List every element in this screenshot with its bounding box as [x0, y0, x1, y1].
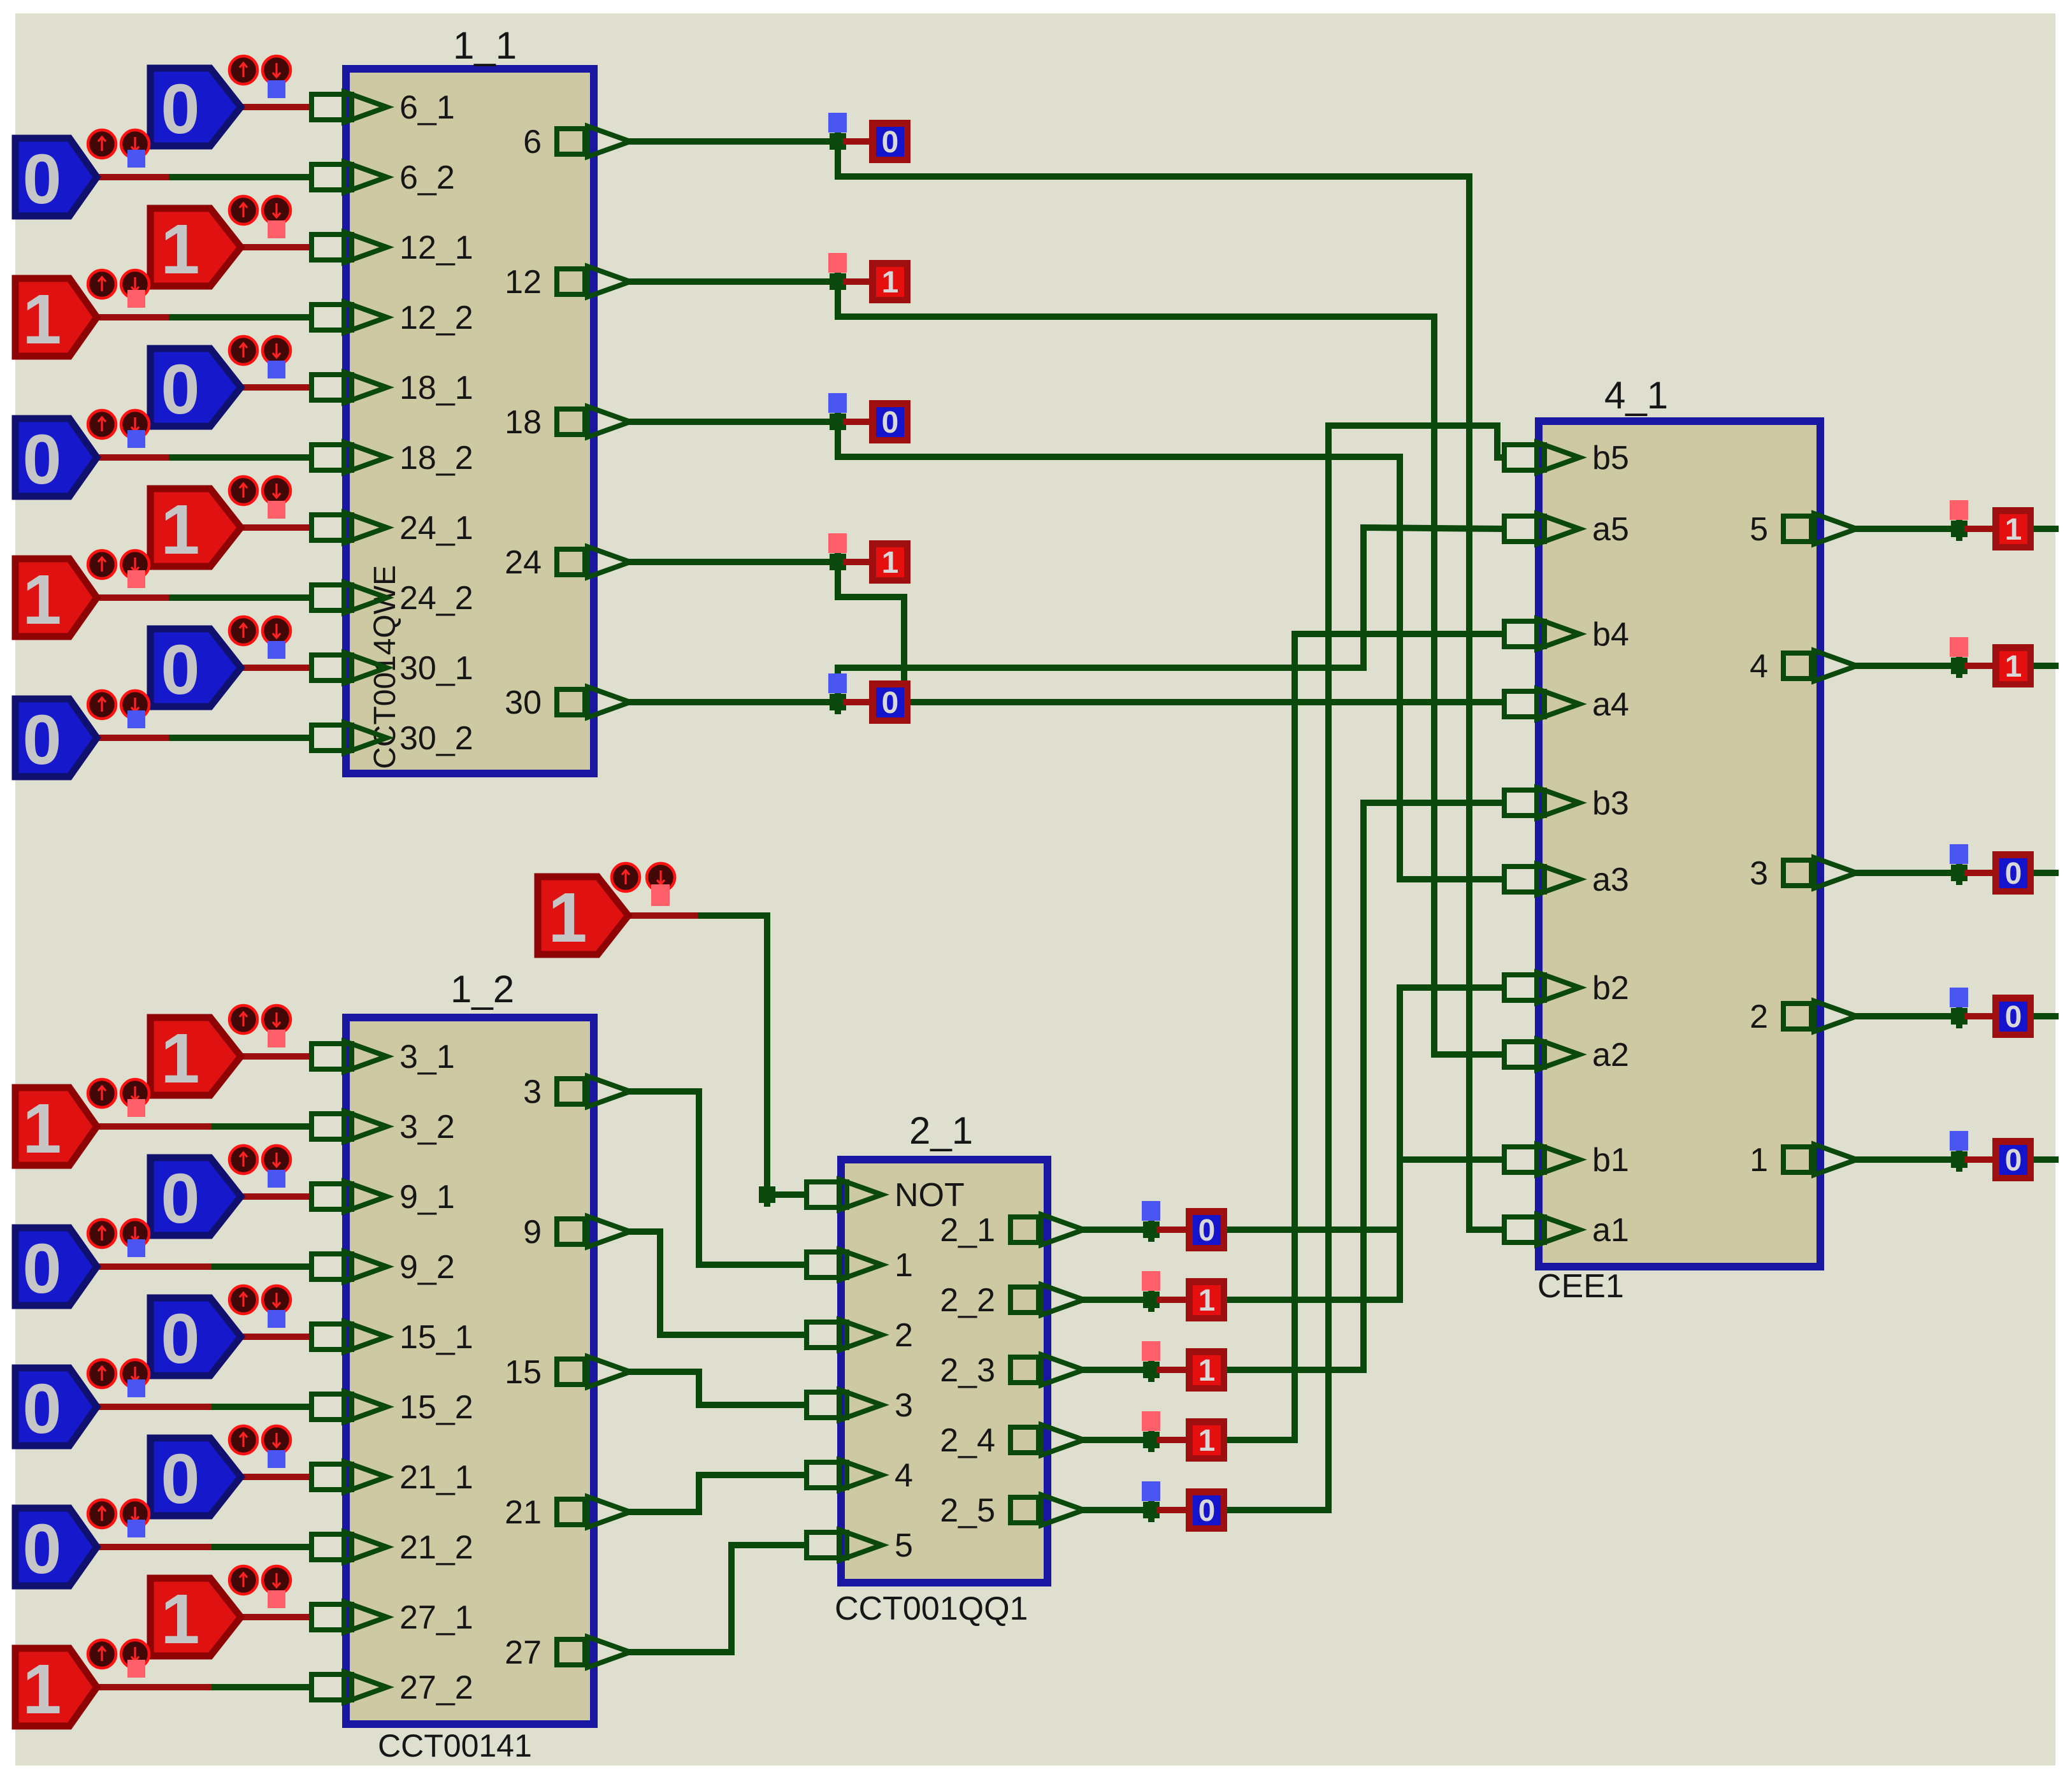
- indicator probe out 1: [1950, 1131, 1968, 1151]
- wire 3 to pin 1: [630, 1091, 804, 1265]
- pin 27_1 (1_2): [312, 1602, 387, 1632]
- wire net 18 into pin a3: [1400, 876, 1502, 882]
- wire (green) to pin 21_2: [215, 1544, 309, 1550]
- wire net 12 into pin a2: [1434, 1051, 1502, 1058]
- logicstate 12_2 value 1: [15, 270, 149, 359]
- pin 24_1 (1_1): [312, 512, 387, 543]
- junction node 2_3: [1143, 1358, 1160, 1382]
- svg-text:2_5: 2_5: [940, 1492, 995, 1529]
- junction node 12: [830, 270, 846, 294]
- pin 3 (2_1): [807, 1390, 882, 1420]
- pin a1 (4_1): [1504, 1214, 1579, 1245]
- wire (green) to pin 18_2: [172, 454, 309, 461]
- wire output 1 to probe junction: [1857, 1156, 1959, 1163]
- svg-text:30: 30: [505, 684, 542, 721]
- indicator probe 2_2: [1142, 1271, 1160, 1291]
- svg-text:4_1: 4_1: [1604, 374, 1668, 417]
- wire (red) junction to probe 2_1: [1160, 1227, 1186, 1233]
- junction node NOT: [759, 1183, 775, 1207]
- logicstate 15_2 value 0: [15, 1360, 149, 1448]
- svg-text:a4: a4: [1592, 686, 1629, 723]
- wire (red) junction to probe 2_5: [1160, 1507, 1186, 1513]
- wire net 2_2 into pin b2: [1400, 984, 1502, 991]
- svg-text:1: 1: [2005, 513, 2022, 547]
- logic probe out 5 value 1: [1992, 507, 2034, 550]
- logic probe 12 value 1: [869, 260, 910, 303]
- pin 9_1 (1_2): [312, 1181, 387, 1212]
- logicstate 30_1 value 0: [150, 617, 291, 709]
- svg-text:3_1: 3_1: [399, 1039, 455, 1076]
- junction node out 1: [1951, 1147, 1968, 1172]
- pin 12 (1_1 out): [557, 266, 630, 297]
- pin 3 (4_1 out): [1783, 858, 1857, 888]
- wire net 2_4 to column b4: [1228, 634, 1295, 1440]
- svg-text:24_1: 24_1: [399, 510, 473, 547]
- pin 2 (2_1): [807, 1320, 882, 1350]
- svg-text:1: 1: [161, 1019, 199, 1098]
- wire net 2_2 to column b2: [1228, 988, 1400, 1300]
- wire 27 to pin 5: [630, 1545, 804, 1652]
- wire output 4 after probe to edge: [2034, 663, 2055, 669]
- wire 21 to pin 4: [630, 1475, 804, 1512]
- logicstate 6_2 value 0: [15, 130, 149, 219]
- wire net 30 vertical and into pin a5: [1363, 528, 1502, 668]
- logic probe 30 value 0: [869, 680, 910, 724]
- pin 1 (2_1): [807, 1249, 882, 1280]
- wire net 24 to pin a4: [904, 699, 1502, 705]
- wire output 2_5 to probe junction: [1084, 1507, 1151, 1513]
- wire output 1 after probe to edge: [2034, 1156, 2055, 1163]
- IC 2_1 (CCT001QQ1) body: [841, 1160, 1047, 1583]
- svg-text:30_2: 30_2: [399, 720, 473, 757]
- svg-text:0: 0: [882, 686, 899, 720]
- wire output 6 to probe junction: [630, 138, 838, 145]
- logicstate 15_1 value 0: [150, 1286, 291, 1378]
- svg-text:18_1: 18_1: [399, 370, 473, 406]
- junction node out 5: [1951, 517, 1968, 541]
- svg-text:CEE1: CEE1: [1537, 1268, 1624, 1305]
- logicstate 27_2 value 1: [15, 1640, 149, 1729]
- svg-text:1: 1: [161, 1580, 199, 1658]
- svg-text:1: 1: [22, 280, 61, 359]
- svg-text:0: 0: [1198, 1494, 1216, 1528]
- logicstate 24_1 value 1: [150, 477, 291, 569]
- svg-text:CCT001QQ1: CCT001QQ1: [835, 1590, 1028, 1627]
- svg-text:2_2: 2_2: [940, 1282, 995, 1319]
- pin 30 (1_1 out): [557, 687, 630, 717]
- pin b4 (4_1): [1504, 619, 1579, 649]
- svg-text:15: 15: [505, 1354, 542, 1391]
- pin b1 (4_1): [1504, 1144, 1579, 1175]
- junction node 30: [830, 690, 846, 714]
- wire output 12 to probe junction: [630, 278, 838, 285]
- pin 27 (1_2 out): [557, 1637, 630, 1667]
- pin 18_1 (1_1): [312, 372, 387, 403]
- wire output 2 to probe junction: [1857, 1013, 1959, 1019]
- IC 1_2 (CCT00141) body: [346, 1018, 594, 1724]
- svg-text:1: 1: [1750, 1142, 1768, 1179]
- pin 6_2 (1_1): [312, 162, 387, 192]
- svg-text:18: 18: [505, 404, 542, 441]
- wire net 12 down/right: [838, 282, 1434, 317]
- logicstate 3_1 value 1: [150, 1005, 291, 1098]
- pin 4 (2_1): [807, 1460, 882, 1490]
- svg-text:1: 1: [895, 1247, 913, 1284]
- pin b3 (4_1): [1504, 788, 1579, 818]
- wire net 30 up/right: [838, 668, 1363, 702]
- indicator probe out 4: [1950, 637, 1968, 657]
- svg-text:3_2: 3_2: [399, 1109, 455, 1146]
- svg-text:1: 1: [882, 546, 899, 580]
- junction node 2_5: [1143, 1498, 1160, 1522]
- wire (red) junction to probe 12: [846, 278, 869, 285]
- junction node 2_4: [1143, 1428, 1160, 1452]
- wire (green) to pin 12_2: [172, 314, 309, 320]
- indicator probe 24: [828, 533, 847, 553]
- svg-text:27: 27: [505, 1634, 542, 1671]
- junction node 6: [830, 129, 846, 154]
- wire (red) logicstate to pin 18_2: [97, 454, 172, 461]
- svg-text:24: 24: [505, 544, 542, 581]
- wire logicstate to pin 18_1: [241, 384, 309, 391]
- wire net 12 vertical to a2 row: [1431, 317, 1437, 1054]
- wire output 30 to probe junction: [630, 699, 838, 705]
- wire logicstate to pin 15_1: [241, 1334, 309, 1340]
- wire output 4 to probe junction: [1857, 663, 1959, 669]
- logic probe 24 value 1: [869, 540, 910, 584]
- wire (red) junction to probe 2_2: [1160, 1297, 1186, 1303]
- svg-text:1: 1: [1198, 1284, 1216, 1318]
- junction node out 4: [1951, 654, 1968, 678]
- logic probe out 4 value 1: [1992, 644, 2034, 687]
- pin 6_1 (1_1): [312, 92, 387, 122]
- svg-text:b2: b2: [1592, 970, 1629, 1007]
- wire logicstate to pin 30_1: [241, 665, 309, 671]
- wire net 2_3 into pin b3: [1363, 800, 1502, 806]
- wire output 18 to probe junction: [630, 419, 838, 425]
- svg-text:1_2: 1_2: [450, 968, 514, 1011]
- wire (green) to pin 24_2: [172, 594, 309, 601]
- svg-text:27_1: 27_1: [399, 1599, 473, 1636]
- svg-text:0: 0: [22, 1370, 61, 1448]
- junction node 2_2: [1143, 1288, 1160, 1312]
- wire (red) junction to probe 2_4: [1160, 1437, 1186, 1443]
- svg-text:1: 1: [1198, 1354, 1216, 1388]
- junction node 2_1: [1143, 1218, 1160, 1242]
- pin 3_1 (1_2): [312, 1041, 387, 1072]
- wire net b1 feed: [1400, 1156, 1502, 1163]
- svg-text:6_2: 6_2: [399, 159, 455, 196]
- pin 24_2 (1_1): [312, 582, 387, 613]
- wire net 6 down/right: [838, 141, 1469, 176]
- wire net 6 into pin a1: [1469, 1227, 1502, 1233]
- pin 3 (1_2 out): [557, 1076, 630, 1107]
- logicstate 3_2 value 1: [15, 1079, 149, 1168]
- svg-text:2_4: 2_4: [940, 1422, 995, 1459]
- logicstate 9_2 value 0: [15, 1219, 149, 1308]
- wire output 5 to probe junction: [1857, 526, 1959, 532]
- wire output 24 to probe junction: [630, 559, 838, 565]
- wire (green) to pin 3_2: [215, 1123, 309, 1130]
- svg-text:a5: a5: [1592, 511, 1629, 548]
- pin 24 (1_1 out): [557, 547, 630, 577]
- wire (red) logicstate to pin 15_2: [97, 1404, 215, 1410]
- indicator probe out 2: [1950, 988, 1968, 1007]
- wire (green) to pin 27_2: [215, 1684, 309, 1690]
- pin 21_2 (1_2): [312, 1532, 387, 1562]
- wire (red) junction to probe 18: [846, 419, 869, 425]
- svg-text:b4: b4: [1592, 616, 1629, 653]
- IC 4_1 (CEE1) body: [1539, 421, 1820, 1267]
- svg-text:CCT00141: CCT00141: [378, 1728, 532, 1764]
- wire 9 to pin 2: [630, 1232, 804, 1335]
- indicator probe out 5: [1950, 500, 1968, 520]
- wire logicstate to pin 21_1: [241, 1474, 309, 1480]
- svg-text:6_1: 6_1: [399, 89, 455, 126]
- pin 18_2 (1_1): [312, 442, 387, 473]
- svg-text:3: 3: [895, 1387, 913, 1424]
- pin a5 (4_1): [1504, 514, 1579, 544]
- wire net 18 vertical to a3 row: [1397, 457, 1403, 879]
- wire (green) to pin 30_2: [172, 735, 309, 741]
- wire (red) logicstate to pin 9_2: [97, 1263, 215, 1270]
- junction node 18: [830, 410, 846, 434]
- wire output 2_1 to probe junction: [1084, 1227, 1151, 1233]
- svg-text:5: 5: [895, 1527, 913, 1564]
- wire logicstate to pin 9_1: [241, 1193, 309, 1200]
- svg-text:0: 0: [882, 126, 899, 159]
- svg-text:a1: a1: [1592, 1212, 1629, 1249]
- logic probe out 2 value 0: [1992, 995, 2034, 1038]
- svg-text:9: 9: [523, 1214, 542, 1251]
- svg-text:2: 2: [1750, 998, 1768, 1035]
- svg-text:a2: a2: [1592, 1037, 1629, 1074]
- pin NOT (2_1): [807, 1179, 882, 1210]
- pin b2 (4_1): [1504, 972, 1579, 1003]
- wire output 2_3 to probe junction: [1084, 1367, 1151, 1373]
- indicator probe 18: [828, 393, 847, 413]
- indicator probe 2_1: [1142, 1201, 1160, 1221]
- pin 6 (1_1 out): [557, 126, 630, 157]
- logicstate 18_1 value 0: [150, 336, 291, 429]
- svg-text:1: 1: [548, 879, 587, 957]
- wire net 2_5 into pin b5: [1328, 426, 1502, 457]
- svg-text:1: 1: [161, 491, 199, 569]
- logicstate 18_2 value 0: [15, 410, 149, 499]
- wire net 2_5 to column b5: [1228, 426, 1328, 1510]
- pin 2 (4_1 out): [1783, 1001, 1857, 1032]
- svg-text:2_3: 2_3: [940, 1352, 995, 1389]
- wire (red) junction to probe 2_3: [1160, 1367, 1186, 1373]
- wire net 2_3 to column b3: [1228, 803, 1363, 1370]
- pin 4 (4_1 out): [1783, 651, 1857, 681]
- wire logicstate to pin 27_1: [241, 1614, 309, 1620]
- wire output 2 after probe to edge: [2034, 1013, 2055, 1019]
- pin 9 (1_2 out): [557, 1216, 630, 1247]
- svg-text:0: 0: [161, 1300, 199, 1378]
- wire logicstate to pin 24_1: [241, 524, 309, 531]
- wire net 2_1 horizontal: [1228, 1227, 1400, 1233]
- pin 27_2 (1_2): [312, 1672, 387, 1702]
- wire 15 to pin 3: [630, 1372, 804, 1405]
- pin 18 (1_1 out): [557, 406, 630, 437]
- wire (red) junction to probe out 3: [1968, 870, 1992, 876]
- pin a2 (4_1): [1504, 1039, 1579, 1070]
- wire (green) to pin 9_2: [215, 1263, 309, 1270]
- svg-text:6: 6: [523, 124, 542, 161]
- svg-text:0: 0: [22, 1230, 61, 1308]
- indicator probe 12: [828, 253, 847, 273]
- wire output 3 to probe junction: [1857, 870, 1959, 876]
- pin 12_1 (1_1): [312, 232, 387, 263]
- svg-text:b1: b1: [1592, 1142, 1629, 1179]
- indicator probe 6: [828, 113, 847, 133]
- svg-text:1_1: 1_1: [453, 24, 517, 67]
- svg-text:0: 0: [2005, 1000, 2022, 1034]
- svg-text:21: 21: [505, 1494, 542, 1531]
- svg-text:0: 0: [22, 1510, 61, 1588]
- logic probe out 3 value 0: [1992, 851, 2034, 895]
- svg-text:30_1: 30_1: [399, 650, 473, 687]
- wire (red) logicstate to pin 12_2: [97, 314, 172, 320]
- indicator probe 2_5: [1142, 1481, 1160, 1501]
- indicator probe 30: [828, 673, 847, 693]
- pin a3 (4_1): [1504, 864, 1579, 895]
- svg-text:2: 2: [895, 1317, 913, 1354]
- svg-text:0: 0: [22, 701, 61, 779]
- junction node 24: [830, 550, 846, 574]
- pin 15_1 (1_2): [312, 1321, 387, 1352]
- wire (red) junction to probe out 2: [1968, 1013, 1992, 1019]
- pin 1 (4_1 out): [1783, 1144, 1857, 1175]
- svg-text:3: 3: [523, 1074, 542, 1111]
- logicstate 12_1 value 1: [150, 196, 291, 289]
- wire (red) junction to probe out 1: [1968, 1156, 1992, 1163]
- junction node out 3: [1951, 861, 1968, 885]
- pin 15_2 (1_2): [312, 1392, 387, 1422]
- svg-text:4: 4: [895, 1457, 913, 1494]
- wire (red) logicstate to pin 3_2: [97, 1123, 215, 1130]
- svg-text:12: 12: [505, 264, 542, 301]
- wire (green) to pin NOT: [701, 916, 804, 1195]
- svg-text:18_2: 18_2: [399, 440, 473, 477]
- svg-text:3: 3: [1750, 855, 1768, 892]
- pin 21 (1_2 out): [557, 1497, 630, 1527]
- svg-text:1: 1: [1198, 1424, 1216, 1458]
- pin 30_1 (1_1): [312, 652, 387, 683]
- svg-text:0: 0: [161, 1440, 199, 1518]
- pin 5 (4_1 out): [1783, 514, 1857, 544]
- wire net 2_4 into pin b4: [1295, 631, 1502, 637]
- wire net 18 down/right: [838, 422, 1400, 457]
- pin 12_2 (1_1): [312, 302, 387, 333]
- logicstate 21_1 value 0: [150, 1426, 291, 1518]
- IC 1_1 (CCT0014QWE) body: [346, 69, 594, 773]
- wire (red) junction to probe 30: [846, 699, 869, 705]
- svg-text:0: 0: [2005, 1144, 2022, 1177]
- wire output 2_2 to probe junction: [1084, 1297, 1151, 1303]
- svg-text:24_2: 24_2: [399, 580, 473, 617]
- wire output 2_4 to probe junction: [1084, 1437, 1151, 1443]
- svg-text:b5: b5: [1592, 440, 1629, 477]
- svg-text:b3: b3: [1592, 785, 1629, 822]
- svg-text:1: 1: [22, 1090, 61, 1168]
- wire output 5 after probe to edge: [2034, 526, 2055, 532]
- wire (red) junction to probe out 4: [1968, 663, 1992, 669]
- svg-text:9_1: 9_1: [399, 1179, 455, 1216]
- svg-text:9_2: 9_2: [399, 1249, 455, 1286]
- pin 2_1 (2_1 out): [1011, 1214, 1084, 1245]
- wire (red) logicstate to pin 24_2: [97, 594, 172, 601]
- pin a4 (4_1): [1504, 689, 1579, 719]
- svg-text:5: 5: [1750, 511, 1768, 548]
- wire logicstate to pin 3_1: [241, 1053, 309, 1060]
- logicstate NOT-input value 1: [538, 863, 675, 957]
- wire (green) to pin 6_2: [172, 174, 309, 180]
- logicstate 30_2 value 0: [15, 691, 149, 779]
- pin 30_2 (1_1): [312, 723, 387, 753]
- junction node out 2: [1951, 1004, 1968, 1028]
- svg-text:0: 0: [161, 1160, 199, 1238]
- svg-text:NOT: NOT: [895, 1177, 965, 1214]
- pin 2_5 (2_1 out): [1011, 1495, 1084, 1525]
- wire net 24 jog around probe 30: [838, 562, 904, 702]
- wire (red) logicstate to pin 30_2: [97, 735, 172, 741]
- svg-text:0: 0: [161, 70, 199, 148]
- svg-text:21_2: 21_2: [399, 1529, 473, 1566]
- wire (red) junction to probe 6: [846, 138, 869, 145]
- wire (red) junction to probe 24: [846, 559, 869, 565]
- wire (red) junction to probe out 5: [1968, 526, 1992, 532]
- svg-text:4: 4: [1750, 648, 1768, 685]
- svg-text:2_1: 2_1: [909, 1109, 973, 1152]
- wire (green) to pin 15_2: [215, 1404, 309, 1410]
- wire output 3 after probe to edge: [2034, 870, 2055, 876]
- logic probe 18 value 0: [869, 400, 910, 443]
- svg-text:1: 1: [882, 266, 899, 299]
- logicstate 21_2 value 0: [15, 1500, 149, 1588]
- svg-text:1: 1: [161, 210, 199, 289]
- svg-text:0: 0: [2005, 857, 2022, 891]
- wire logicstate to pin 12_1: [241, 244, 309, 250]
- logicstate 6_1 value 0: [150, 56, 291, 148]
- pin 5 (2_1): [807, 1530, 882, 1560]
- wire logicstate to pin 6_1: [241, 104, 309, 110]
- logic probe 2_2 value 1: [1186, 1278, 1227, 1321]
- pin 9_2 (1_2): [312, 1251, 387, 1282]
- svg-text:0: 0: [22, 140, 61, 219]
- pin 2_4 (2_1 out): [1011, 1425, 1084, 1455]
- wire (red) logicstate to pin 27_2: [97, 1684, 215, 1690]
- pin 3_2 (1_2): [312, 1111, 387, 1142]
- svg-text:1: 1: [22, 561, 61, 639]
- svg-text:12_1: 12_1: [399, 229, 473, 266]
- logicstate 9_1 value 0: [150, 1146, 291, 1238]
- pin 2_3 (2_1 out): [1011, 1355, 1084, 1385]
- svg-text:1: 1: [2005, 650, 2022, 684]
- wire net 6 vertical to a1 row: [1466, 176, 1472, 1230]
- svg-text:12_2: 12_2: [399, 299, 473, 336]
- logicstate 27_1 value 1: [150, 1566, 291, 1658]
- svg-text:a3: a3: [1592, 861, 1629, 898]
- logic probe 2_5 value 0: [1186, 1488, 1227, 1532]
- logic probe 2_1 value 0: [1186, 1208, 1227, 1251]
- svg-text:0: 0: [1198, 1214, 1216, 1248]
- svg-text:0: 0: [22, 421, 61, 499]
- svg-text:0: 0: [882, 406, 899, 440]
- svg-text:15_2: 15_2: [399, 1389, 473, 1426]
- pin b5 (4_1): [1504, 442, 1579, 473]
